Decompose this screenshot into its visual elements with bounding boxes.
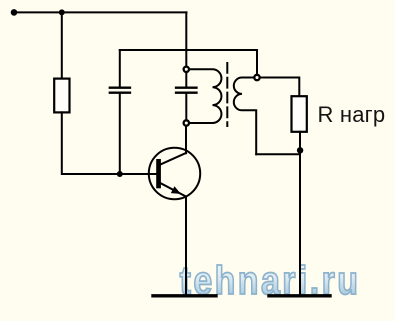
- tank capacitor C2 bottom lead: [185, 94, 187, 120]
- ground left: [153, 294, 216, 297]
- junction dot load bottom: [297, 147, 303, 153]
- transistor Q1 emitter arrow: [171, 186, 181, 194]
- wire feedback horizontal to right winding: [120, 50, 257, 74]
- wire emitter to ground: [185, 197, 187, 295]
- wire left column down to resistor: [61, 12, 63, 79]
- secondary top terminal circle: [254, 75, 259, 80]
- transistor Q1 circle: [149, 148, 200, 199]
- transistor Q1 collector diagonal: [161, 153, 186, 164]
- transformer T1 secondary winding: [234, 78, 256, 155]
- wire right column to ground: [299, 154, 301, 294]
- primary bottom terminal circle: [184, 120, 189, 125]
- transformer T1 primary winding: [189, 69, 221, 123]
- wire vertical into primary top terminal: [185, 12, 187, 66]
- resistor R1 (bias): [54, 79, 69, 113]
- resistor R load: [292, 96, 307, 132]
- wire secondary top to load: [260, 78, 299, 97]
- capacitor C2 plate bottom: [176, 92, 197, 94]
- terminal dot top-left: [11, 9, 18, 16]
- junction dot base node: [117, 171, 123, 177]
- ground right: [269, 294, 330, 297]
- primary top terminal circle: [184, 67, 260, 126]
- junction dot left column: [59, 9, 65, 15]
- wire top horizontal supply: [14, 11, 187, 13]
- capacitor C1 plate bottom: [110, 92, 130, 94]
- transistor Q1 emitter diagonal: [161, 183, 186, 196]
- wire secondary bottom connector: [256, 153, 300, 155]
- svg-text:R нагр: R нагр: [318, 102, 386, 127]
- transformer core: [226, 63, 228, 126]
- transistor Q1 base bar: [156, 159, 161, 188]
- wire capacitor C1 bottom lead to base node: [119, 94, 121, 175]
- capacitor C2 plate top: [176, 87, 197, 89]
- wire collector vertical: [185, 126, 187, 153]
- capacitor C1 plate top: [110, 87, 130, 89]
- wire load bottom: [299, 132, 301, 155]
- wire capacitor C1 top lead: [119, 50, 121, 87]
- tank capacitor C2 top lead: [185, 72, 187, 87]
- wire resistor bottom to base node: [62, 112, 156, 174]
